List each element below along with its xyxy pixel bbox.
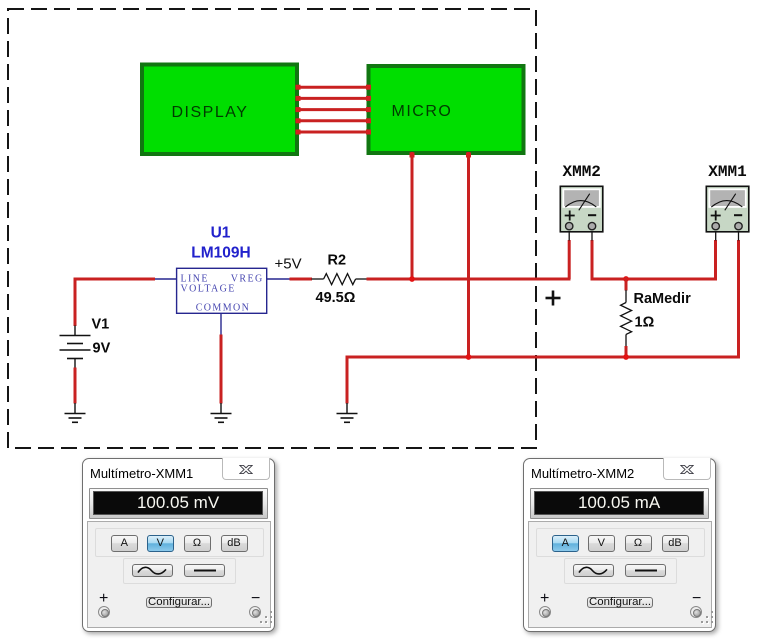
- ground (U1 COMMON): [211, 403, 232, 422]
- label R2: [328, 252, 347, 268]
- label 9V: [93, 341, 111, 357]
- label 49.5 ohm: [316, 290, 356, 306]
- instrument panel Multimetro-XMM1: [82, 458, 275, 632]
- battery V1: [60, 326, 91, 369]
- bus wire 3: [296, 107, 372, 112]
- wire R2 to XMM2 plus (+5V rail): [367, 278, 571, 281]
- svg-text:U1: U1: [211, 225, 231, 242]
- label V1: [92, 317, 110, 333]
- wire V1 to ground: [74, 368, 77, 404]
- bus wire 1 DISPLAY-MICRO: [296, 85, 372, 90]
- label + (polarity): [546, 291, 561, 306]
- svg-text:RaMedir: RaMedir: [634, 291, 692, 307]
- svg-text:COMMON: COMMON: [196, 302, 251, 313]
- svg-text:XMM2: XMM2: [562, 163, 600, 181]
- multimeter icon XMM1: [706, 186, 749, 240]
- wire U1 VREG to R2: [290, 278, 313, 281]
- subcircuit boundary dashed box: [8, 9, 536, 448]
- svg-text:9V: 9V: [93, 341, 111, 357]
- junction MICRO pin1 / rail: [409, 276, 415, 282]
- svg-text:49.5Ω: 49.5Ω: [316, 290, 356, 306]
- label LM109H: [191, 245, 250, 262]
- bus wire 5: [296, 130, 372, 135]
- svg-text:V1: V1: [92, 317, 110, 333]
- U1 pin VREG: [267, 278, 290, 280]
- junction MICRO pin2 / rail: [466, 354, 472, 360]
- svg-text:VREG: VREG: [231, 274, 264, 285]
- svg-text:MICRO: MICRO: [392, 103, 453, 120]
- resistor R2: [312, 274, 369, 285]
- block MICRO: [369, 66, 524, 153]
- label 1 ohm: [635, 314, 655, 330]
- bus wire 4: [296, 118, 372, 123]
- wire V1 to U1 LINE input: [75, 279, 155, 326]
- svg-text:DISPLAY: DISPLAY: [172, 104, 249, 121]
- multimeter icon XMM2: [560, 186, 603, 240]
- resistor RaMedir: [621, 278, 632, 359]
- label +5V: [275, 256, 302, 273]
- svg-text:1Ω: 1Ω: [635, 314, 655, 330]
- junction RaMedir top / node: [623, 276, 629, 282]
- wire XMM1 minus down to ground rail: [737, 240, 740, 359]
- label XMM1: [708, 163, 746, 181]
- ground (battery): [65, 403, 86, 422]
- label RaMedir: [634, 291, 692, 307]
- svg-text:LM109H: LM109H: [191, 245, 250, 262]
- svg-text:XMM1: XMM1: [708, 163, 746, 181]
- ground (rail): [337, 403, 358, 422]
- label XMM2: [562, 163, 600, 181]
- U1 pin LINE: [155, 278, 177, 280]
- svg-text:R2: R2: [328, 252, 347, 268]
- svg-text:VOLTAGE: VOLTAGE: [181, 284, 236, 295]
- wire XMM2 plus stub: [568, 240, 571, 279]
- block DISPLAY: [142, 65, 297, 155]
- wire MICRO pin1 to +5V rail: [410, 152, 415, 281]
- svg-text:+5V: +5V: [275, 256, 302, 273]
- label U1: [211, 225, 231, 242]
- wire MICRO pin2 to ground rail: [466, 152, 471, 359]
- wire U1 COMMON to ground: [220, 335, 223, 404]
- bus wire 2: [296, 96, 372, 101]
- ground rail (bottom): [347, 357, 740, 404]
- wire XMM2 minus to XMM1 plus (sense node): [592, 240, 716, 279]
- junction RaMedir bottom / rail: [623, 354, 629, 360]
- instrument panel Multimetro-XMM2: [523, 458, 716, 632]
- voltage regulator U1 box: [177, 268, 267, 313]
- U1 pin COMMON: [220, 313, 222, 335]
